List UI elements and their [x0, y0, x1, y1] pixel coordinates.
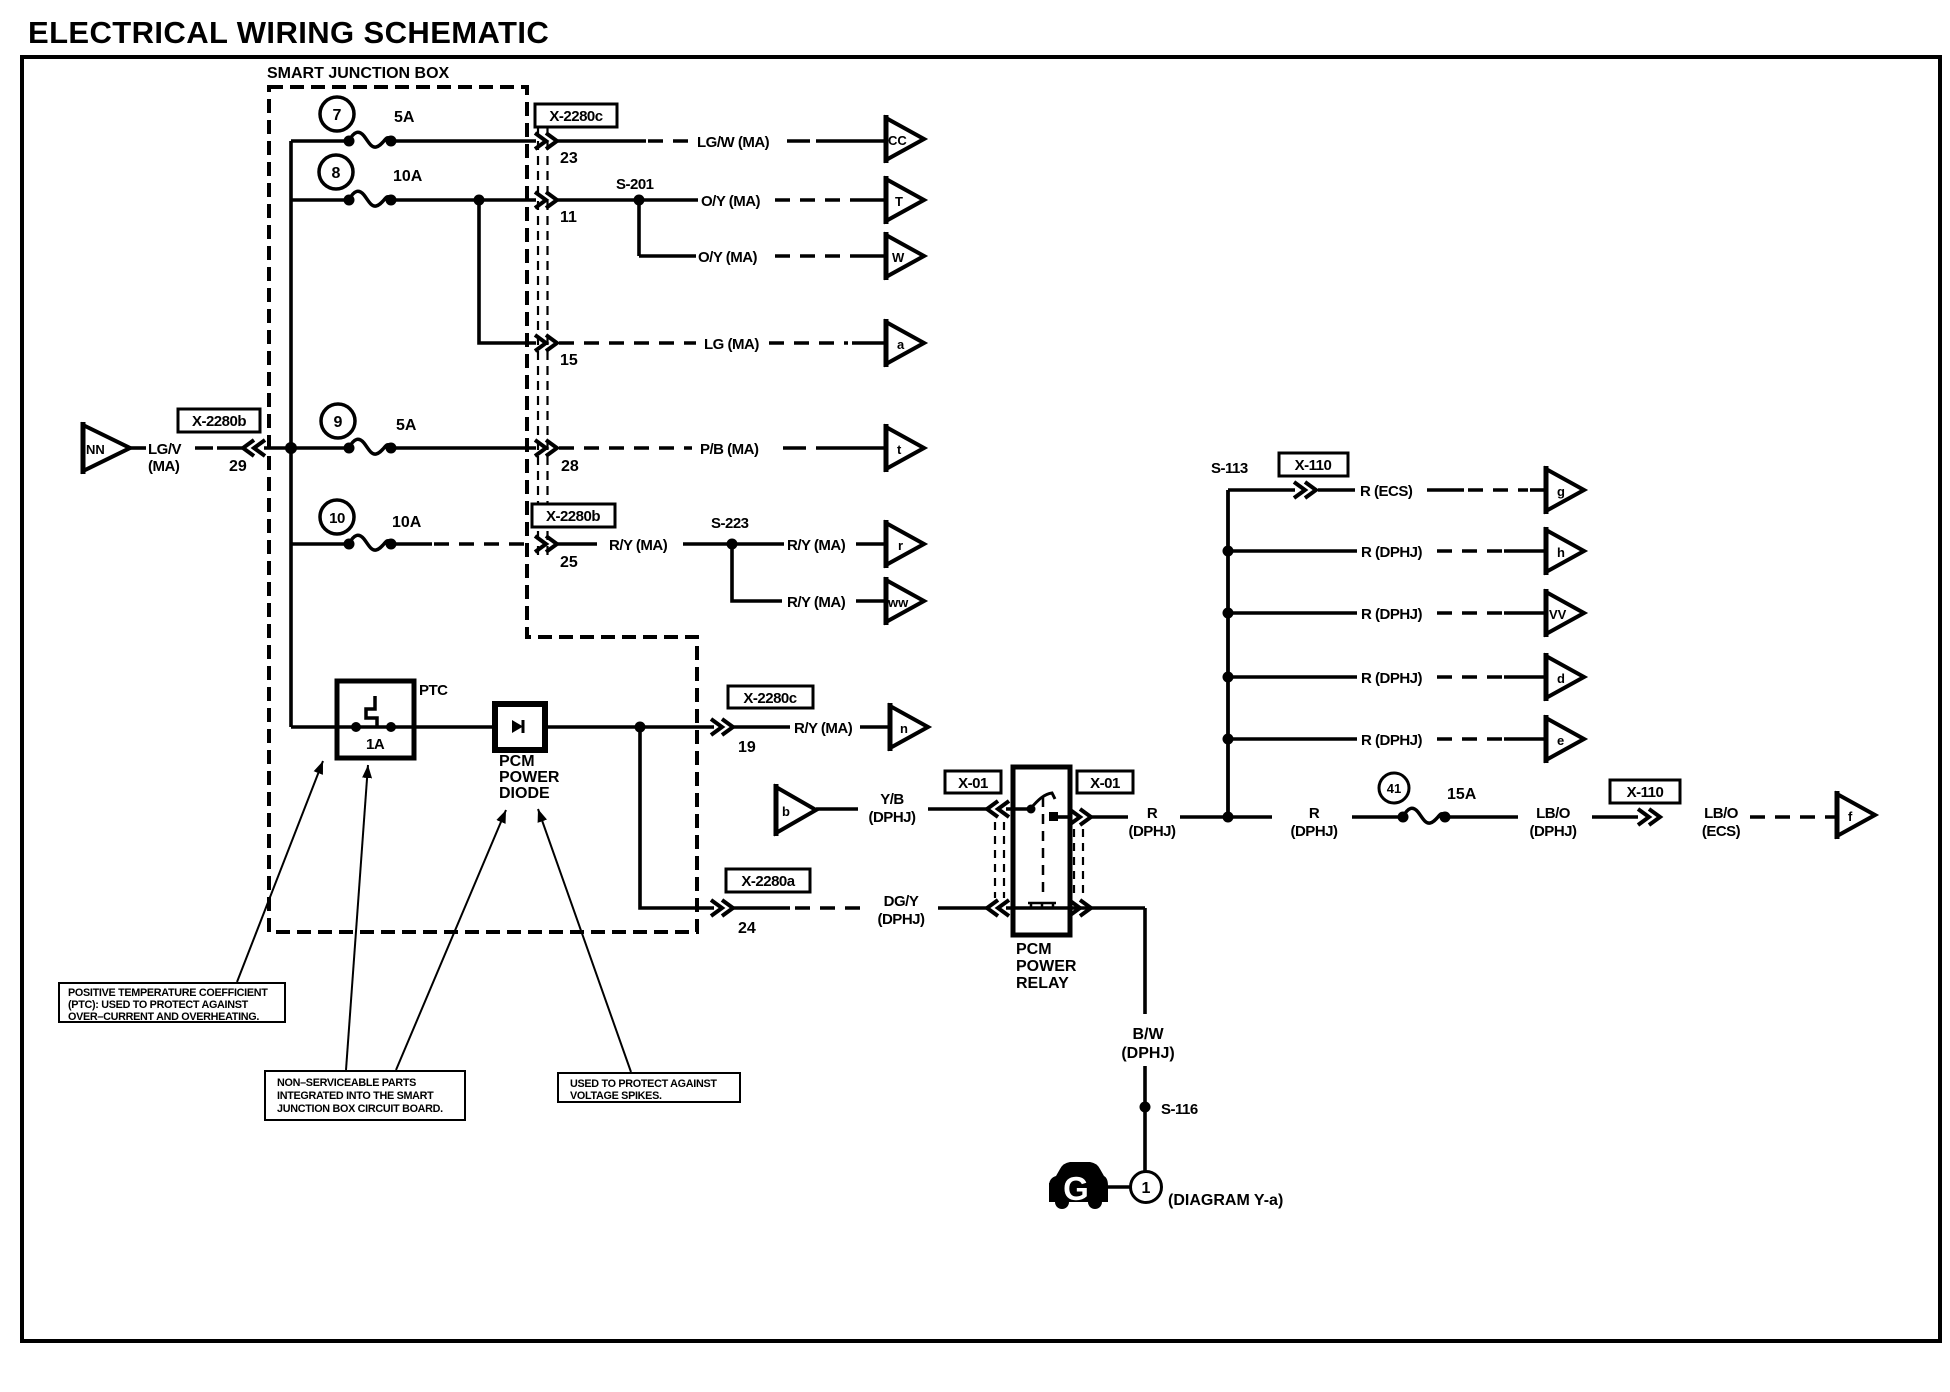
svg-text:23: 23	[560, 150, 578, 167]
connector label X-110 right	[1610, 780, 1680, 803]
relay switch arm	[1031, 793, 1055, 808]
wire LB/O (DPHJ)	[1445, 815, 1518, 819]
PCM power relay box	[1013, 767, 1070, 935]
svg-text:X-2280a: X-2280a	[741, 873, 795, 890]
svg-text:VOLTAGE SPIKES.: VOLTAGE SPIKES.	[570, 1090, 662, 1102]
wire branch S-201 down	[637, 200, 641, 256]
splice S-223	[727, 539, 738, 550]
chevron pin 23	[535, 133, 557, 149]
fuse 10 element	[344, 535, 397, 550]
svg-text:X-110: X-110	[1627, 784, 1664, 801]
svg-text:f: f	[1848, 809, 1853, 824]
connector a	[886, 319, 924, 367]
node bus dot row VV	[1223, 608, 1234, 619]
fuse 7 element	[344, 132, 397, 147]
svg-text:W: W	[892, 250, 905, 265]
svg-text:JUNCTION BOX CIRCUIT BOARD.: JUNCTION BOX CIRCUIT BOARD.	[277, 1103, 443, 1115]
chevron pin 25	[535, 536, 557, 552]
chevron pin 15	[535, 335, 557, 351]
relay contact terminal	[1049, 812, 1058, 821]
fuse 9 circle	[321, 404, 355, 438]
wire row 11 to connector	[391, 198, 536, 202]
connector n	[890, 703, 928, 751]
connector f	[1837, 791, 1875, 839]
fuse 9 element	[344, 439, 397, 454]
connector g	[1546, 466, 1584, 514]
wire LG (MA)	[559, 341, 696, 345]
svg-text:LG/V: LG/V	[148, 441, 181, 458]
svg-text:41: 41	[1387, 781, 1401, 796]
wire row 28 to connector	[391, 446, 536, 450]
note box non-serviceable	[265, 1071, 465, 1120]
svg-text:R: R	[1309, 805, 1320, 822]
svg-text:RELAY: RELAY	[1016, 975, 1069, 992]
svg-text:LG/W (MA): LG/W (MA)	[697, 134, 770, 151]
connector h	[1546, 527, 1584, 575]
svg-text:R/Y (MA): R/Y (MA)	[794, 720, 853, 737]
svg-text:CC: CC	[888, 133, 907, 148]
splice S-201	[634, 195, 645, 206]
PTC thermistor symbol	[366, 696, 377, 727]
svg-text:X-2280b: X-2280b	[546, 508, 600, 525]
svg-text:USED TO PROTECT AGAINST: USED TO PROTECT AGAINST	[570, 1078, 717, 1090]
connector label X-2280a	[726, 869, 810, 892]
svg-text:R (ECS): R (ECS)	[1360, 483, 1413, 500]
svg-text:Y/B: Y/B	[880, 791, 904, 808]
chevron pin 19	[711, 719, 733, 735]
splice S-116	[1140, 1102, 1151, 1113]
svg-text:B/W: B/W	[1132, 1026, 1164, 1043]
svg-text:7: 7	[333, 107, 342, 124]
wire row 25 dashed to connector	[391, 542, 432, 546]
wire R (DPHJ) row d	[1228, 675, 1357, 679]
svg-text:X-2280b: X-2280b	[192, 413, 246, 430]
connector label X-2280c row 19	[728, 686, 813, 708]
svg-text:R/Y (MA): R/Y (MA)	[787, 537, 846, 554]
svg-text:11: 11	[560, 209, 577, 226]
wire row 23 to connector	[391, 139, 536, 143]
svg-text:24: 24	[738, 920, 756, 937]
svg-text:ww: ww	[887, 595, 909, 610]
svg-text:5A: 5A	[394, 109, 415, 126]
svg-text:POWER: POWER	[1016, 958, 1077, 975]
svg-text:n: n	[900, 721, 908, 736]
svg-text:ELECTRICAL WIRING SCHEMATIC: ELECTRICAL WIRING SCHEMATIC	[28, 15, 549, 50]
node junction dot feed/row9	[285, 442, 297, 454]
node bus dot row d	[1223, 672, 1234, 683]
wire row 11 feed segment	[291, 198, 348, 202]
PTC box	[337, 681, 414, 758]
node junction bus bottom	[1223, 812, 1234, 823]
wire dash into pin 29	[195, 446, 242, 450]
connector r	[886, 520, 924, 568]
svg-text:O/Y (MA): O/Y (MA)	[698, 249, 758, 266]
svg-text:R (DPHJ): R (DPHJ)	[1361, 670, 1423, 687]
connector label X-2280b row 25	[532, 504, 615, 527]
svg-text:10A: 10A	[392, 514, 422, 531]
wire feed into PTC	[291, 725, 337, 729]
svg-text:PTC: PTC	[419, 682, 448, 699]
connector CC	[886, 115, 924, 163]
svg-text:15A: 15A	[1447, 786, 1477, 803]
wire DG/Y (DPHJ) dashed	[733, 906, 790, 910]
ground symbol G (vehicle)	[1049, 1162, 1108, 1202]
fuse 41 element	[1398, 808, 1451, 823]
feed wire vertical bus inside SJB	[289, 141, 293, 727]
wire R (DPHJ) row VV	[1228, 611, 1357, 615]
svg-text:28: 28	[561, 458, 579, 475]
connector X-01 dashed lines right	[1074, 829, 1083, 898]
connector W	[886, 232, 924, 280]
connector label X-110 top	[1279, 453, 1348, 476]
svg-text:R (DPHJ): R (DPHJ)	[1361, 732, 1423, 749]
node bus dot row e	[1223, 734, 1234, 745]
relay contact dot	[1027, 805, 1036, 814]
svg-text:X-110: X-110	[1295, 457, 1332, 474]
svg-text:h: h	[1557, 545, 1565, 560]
svg-text:X-2280c: X-2280c	[743, 690, 796, 707]
svg-text:(DPHJ): (DPHJ)	[1121, 1045, 1174, 1062]
svg-text:X-01: X-01	[958, 775, 988, 792]
leader line note1 to PTC	[237, 761, 323, 982]
wire R/Y (MA) to S-223	[558, 542, 597, 546]
svg-text:29: 29	[229, 458, 247, 475]
svg-text:10A: 10A	[393, 168, 423, 185]
svg-text:PCM: PCM	[499, 753, 535, 770]
svg-text:(DPHJ): (DPHJ)	[877, 911, 925, 928]
svg-text:25: 25	[560, 554, 578, 571]
svg-text:S-201: S-201	[616, 176, 654, 193]
connector T	[886, 176, 924, 224]
wire R (ECS) row g	[1228, 488, 1295, 492]
wire B/W (DPHJ) down	[1143, 908, 1147, 1014]
svg-text:9: 9	[334, 414, 343, 431]
chevron relay X-01 left bottom	[987, 900, 1009, 916]
wire branch S-223 down	[732, 544, 782, 601]
fuse 8 element	[344, 191, 397, 206]
wire Y/B (DPHJ)	[816, 807, 858, 811]
svg-text:NN: NN	[86, 442, 105, 457]
svg-text:S-113: S-113	[1211, 460, 1248, 477]
svg-text:NON–SERVICEABLE PARTS: NON–SERVICEABLE PARTS	[277, 1077, 416, 1089]
svg-text:15: 15	[560, 352, 578, 369]
svg-text:R (DPHJ): R (DPHJ)	[1361, 544, 1423, 561]
connector label X-2280c	[535, 104, 617, 127]
wire O/Y (MA) row W	[639, 254, 696, 258]
fuse 10 circle	[320, 500, 354, 534]
chevron X-110 row g	[1294, 482, 1316, 498]
svg-text:a: a	[897, 337, 905, 352]
svg-text:X-01: X-01	[1090, 775, 1120, 792]
PCM power diode box	[495, 704, 545, 750]
wire R/Y (MA) row n	[733, 725, 790, 729]
svg-text:INTEGRATED INTO THE SMART: INTEGRATED INTO THE SMART	[277, 1090, 434, 1102]
svg-text:R (DPHJ): R (DPHJ)	[1361, 606, 1423, 623]
svg-text:S-116: S-116	[1161, 1101, 1198, 1118]
chevron pin 29 (into SJB)	[243, 440, 265, 456]
node junction dot row19	[635, 722, 646, 733]
svg-text:OVER–CURRENT AND OVERHEATING.: OVER–CURRENT AND OVERHEATING.	[68, 1011, 259, 1023]
svg-text:G: G	[1063, 1170, 1089, 1207]
node branch dot row11	[474, 195, 485, 206]
wire branch row 11 down to pin 15	[479, 200, 536, 343]
ground id circle 1	[1131, 1172, 1162, 1203]
svg-text:LG (MA): LG (MA)	[704, 336, 759, 353]
svg-text:e: e	[1557, 733, 1564, 748]
chevron relay X-01 left top	[987, 801, 1009, 817]
leader line note3 to diode	[538, 809, 631, 1072]
chevron X-110 right	[1638, 809, 1660, 825]
diode symbol	[512, 720, 523, 733]
connector d	[1546, 653, 1584, 701]
svg-text:R/Y (MA): R/Y (MA)	[787, 594, 846, 611]
svg-text:b: b	[782, 804, 790, 819]
wire through relay bottom row	[1006, 906, 1145, 910]
chevron pin 11	[535, 192, 557, 208]
connector X-01 dashed lines left	[995, 822, 1004, 898]
chevron pin 24	[711, 900, 733, 916]
relay coil bottom comb	[1028, 903, 1056, 908]
wire into relay contact	[1006, 807, 1031, 811]
wire R (DPHJ) out of relay	[1057, 815, 1070, 819]
chevron pin 28	[535, 440, 557, 456]
fuse 8 circle	[319, 155, 353, 189]
connector VV	[1546, 589, 1584, 637]
chevron relay X-01 right top	[1069, 809, 1091, 825]
svg-text:d: d	[1557, 671, 1565, 686]
svg-text:5A: 5A	[396, 417, 417, 434]
svg-text:LB/O: LB/O	[1704, 805, 1739, 822]
wire ground to circle 1	[1108, 1185, 1131, 1189]
svg-text:(DPHJ): (DPHJ)	[868, 809, 916, 826]
svg-text:g: g	[1557, 484, 1565, 499]
svg-text:O/Y (MA): O/Y (MA)	[701, 193, 761, 210]
svg-text:(DPHJ): (DPHJ)	[1290, 823, 1338, 840]
connector t	[886, 424, 924, 472]
svg-text:1: 1	[1142, 1180, 1151, 1197]
wire R (DPHJ) row e	[1228, 737, 1357, 741]
wire P/B (MA)	[559, 446, 692, 450]
connector label X-2280b left	[178, 409, 260, 432]
svg-text:r: r	[898, 538, 903, 553]
wire row 23 feed segment	[291, 139, 348, 143]
node bus dot row h	[1223, 546, 1234, 557]
PTC terminal dots	[351, 722, 361, 732]
fuse 7 circle	[320, 97, 354, 131]
svg-text:S-223: S-223	[711, 515, 749, 532]
svg-text:(PTC): USED TO PROTECT AGAINST: (PTC): USED TO PROTECT AGAINST	[68, 999, 249, 1011]
wire row 19	[545, 725, 714, 729]
connector NN input triangle	[83, 425, 130, 471]
connector b input triangle	[776, 787, 816, 833]
svg-text:(DIAGRAM Y-a): (DIAGRAM Y-a)	[1168, 1192, 1283, 1209]
wire NN to LG/V	[130, 446, 146, 450]
svg-text:X-2280c: X-2280c	[549, 108, 602, 125]
svg-text:LB/O: LB/O	[1536, 805, 1571, 822]
connector X-2280c dashed lines	[538, 126, 548, 560]
wire row 10 feed	[291, 542, 348, 546]
connector label X-01 left	[945, 771, 1001, 793]
leader line note2 to diode	[396, 810, 506, 1070]
svg-text:t: t	[897, 442, 902, 457]
connector e	[1546, 715, 1584, 763]
wire row 9 feed	[264, 446, 348, 450]
connector label X-01 right	[1077, 771, 1133, 793]
wire R (DPHJ) row h	[1228, 549, 1357, 553]
svg-text:19: 19	[738, 739, 756, 756]
wire LG/W (MA)	[558, 139, 646, 143]
svg-text:R/Y (MA): R/Y (MA)	[609, 537, 668, 554]
svg-text:(DPHJ): (DPHJ)	[1529, 823, 1577, 840]
svg-text:(ECS): (ECS)	[1702, 823, 1741, 840]
svg-text:DG/Y: DG/Y	[884, 893, 919, 910]
svg-text:SMART JUNCTION BOX: SMART JUNCTION BOX	[267, 65, 450, 82]
svg-text:10: 10	[329, 510, 345, 527]
wire through PTC	[337, 725, 495, 729]
svg-text:R: R	[1147, 805, 1158, 822]
svg-text:DIODE: DIODE	[499, 785, 550, 802]
relay coil dashed line	[1042, 797, 1045, 899]
svg-text:POWER: POWER	[499, 769, 560, 786]
wire branch row19 down to row 24	[640, 727, 714, 908]
chevron relay X-01 right bottom	[1069, 900, 1091, 916]
note box PTC description	[59, 983, 285, 1022]
leader line note2 to PTC	[346, 765, 368, 1070]
wire O/Y (MA) row T	[558, 198, 698, 202]
svg-text:8: 8	[332, 165, 341, 182]
connector ww	[886, 577, 924, 625]
svg-text:(MA): (MA)	[148, 458, 180, 475]
fuse 41 circle	[1379, 773, 1409, 803]
svg-text:(DPHJ): (DPHJ)	[1128, 823, 1176, 840]
svg-text:P/B (MA): P/B (MA)	[700, 441, 759, 458]
svg-text:1A: 1A	[366, 736, 385, 753]
svg-text:POSITIVE TEMPERATURE COEFFICIE: POSITIVE TEMPERATURE COEFFICIENT	[68, 987, 268, 999]
svg-text:PCM: PCM	[1016, 941, 1052, 958]
svg-text:T: T	[895, 194, 903, 209]
smart junction box dashed outline	[269, 87, 697, 932]
svg-text:VV: VV	[1549, 607, 1567, 622]
bus vertical wire S-113	[1226, 490, 1230, 817]
note box voltage spikes	[558, 1073, 740, 1102]
